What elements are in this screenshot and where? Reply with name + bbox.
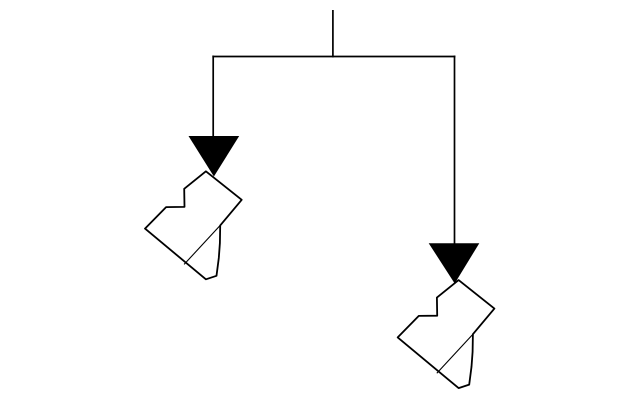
wire horizontal bar — [212, 56, 455, 58]
pendant shape left inner diagonal — [184, 225, 220, 264]
arrowhead left — [189, 136, 240, 177]
pendant shape right outline — [398, 280, 495, 388]
wire top stem — [332, 10, 334, 57]
pendant shape left outline — [145, 171, 242, 279]
wire left drop — [212, 56, 214, 138]
pendant shape right inner diagonal — [437, 334, 473, 373]
wire right drop — [454, 56, 456, 245]
arrowhead right — [429, 243, 480, 283]
